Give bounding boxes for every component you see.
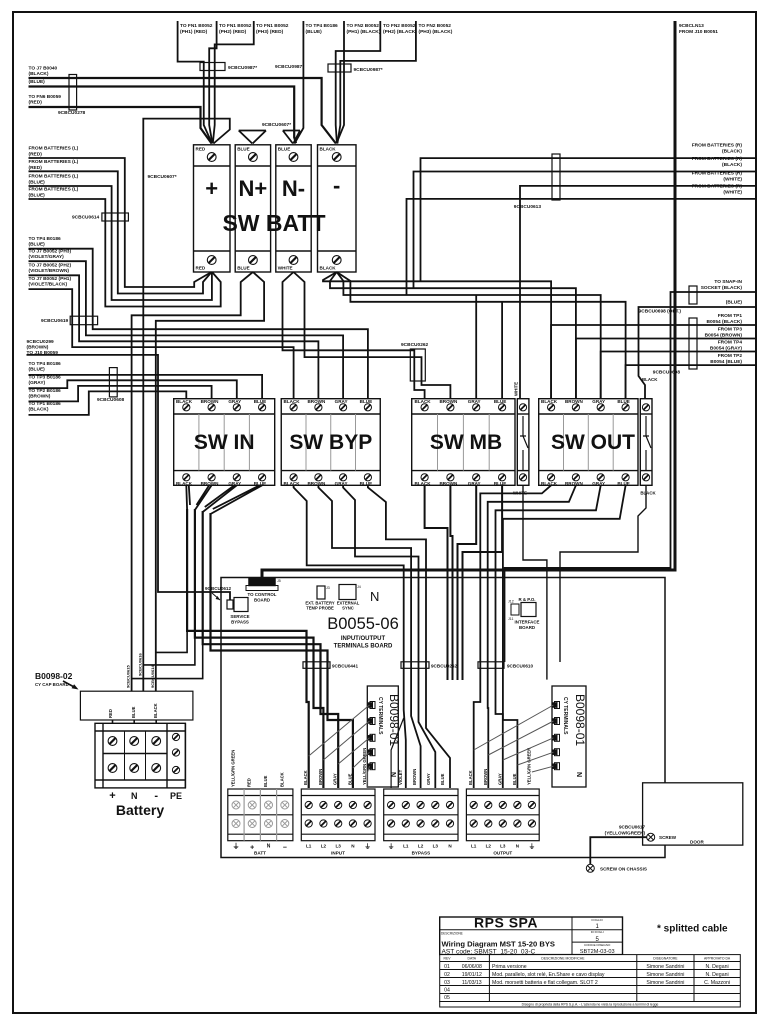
svg-text:9CBCU0614: 9CBCU0614 (72, 215, 100, 221)
svg-text:SW MB: SW MB (430, 431, 502, 454)
svg-text:9CBCU0278: 9CBCU0278 (58, 110, 86, 116)
svg-text:9CBCU0614: 9CBCU0614 (150, 665, 155, 688)
svg-text:SW BYP: SW BYP (289, 431, 372, 454)
svg-text:BROWN: BROWN (565, 399, 584, 404)
svg-text:FROM BATTERIES (L): FROM BATTERIES (L) (29, 146, 79, 152)
svg-text:BROWN: BROWN (412, 769, 417, 785)
svg-text:B0098-01: B0098-01 (573, 694, 587, 746)
svg-text:9CBCU0262: 9CBCU0262 (431, 664, 457, 669)
svg-text:(WHITE): (WHITE) (723, 177, 742, 183)
svg-text:03: 03 (444, 980, 450, 986)
svg-text:N+: N+ (239, 176, 268, 201)
svg-text:TO FN2 B0052: TO FN2 B0052 (419, 23, 452, 29)
svg-text:TO SNAP-IN: TO SNAP-IN (714, 279, 742, 285)
svg-text:(BLACK): (BLACK) (29, 407, 49, 413)
svg-text:−: − (283, 845, 287, 852)
svg-text:9CBCU0698 (OPT.): 9CBCU0698 (OPT.) (639, 309, 682, 315)
svg-text:9CBCU0610: 9CBCU0610 (507, 664, 533, 669)
svg-text:L3: L3 (500, 844, 506, 849)
svg-text:BLACK: BLACK (541, 481, 558, 486)
svg-text:(VIOLET/GRAY): (VIOLET/GRAY) (29, 254, 65, 260)
svg-text:TO TP1 B0186: TO TP1 B0186 (29, 401, 62, 407)
svg-text:BLUE: BLUE (237, 266, 250, 271)
svg-text:BLUE: BLUE (360, 481, 373, 486)
svg-text:BLACK: BLACK (284, 481, 301, 486)
svg-text:TO TP4 B0186: TO TP4 B0186 (306, 23, 339, 29)
svg-text:FROM BATTERIES (R): FROM BATTERIES (R) (692, 156, 743, 162)
svg-text:C. Mazzoni: C. Mazzoni (704, 980, 730, 986)
svg-text:BROWN: BROWN (439, 399, 458, 404)
svg-text:BLACK: BLACK (153, 703, 158, 718)
svg-text:L3: L3 (336, 844, 342, 849)
svg-text:BOARD: BOARD (254, 598, 270, 603)
svg-text:TO J7 B0052 (PH2): TO J7 B0052 (PH2) (29, 263, 72, 269)
svg-text:BLUE: BLUE (494, 481, 507, 486)
svg-text:L1: L1 (471, 844, 477, 849)
svg-text:TO CONTROL: TO CONTROL (248, 592, 277, 597)
svg-text:FROM BATTERIES (R): FROM BATTERIES (R) (692, 143, 743, 149)
svg-text:⏚: ⏚ (529, 843, 536, 851)
svg-text:BROWN: BROWN (483, 769, 488, 785)
svg-text:L2: L2 (321, 844, 327, 849)
svg-text:Simone Sandrini: Simone Sandrini (646, 972, 684, 978)
svg-text:GRAY: GRAY (426, 773, 431, 785)
svg-text:INPUT: INPUT (331, 851, 345, 856)
svg-text:RED: RED (108, 709, 113, 718)
svg-text:BLUE: BLUE (278, 147, 291, 152)
svg-text:BLACK: BLACK (640, 490, 656, 495)
svg-text:TO J7 B0052 (PH3): TO J7 B0052 (PH3) (29, 249, 72, 255)
svg-text:BLUE: BLUE (360, 399, 373, 404)
svg-text:L1: L1 (403, 844, 409, 849)
svg-text:FROM BATTERIES (L): FROM BATTERIES (L) (29, 187, 79, 193)
svg-text:(BLUE): (BLUE) (29, 193, 46, 199)
svg-text:(VIOLET/BROWN): (VIOLET/BROWN) (29, 268, 70, 274)
svg-text:WHITE: WHITE (514, 382, 519, 396)
svg-text:Battery: Battery (116, 802, 164, 818)
svg-text:R & P.O.: R & P.O. (519, 597, 536, 602)
svg-text:RPS SPA: RPS SPA (474, 914, 538, 930)
svg-text:DESCRIZIONE: DESCRIZIONE (441, 931, 463, 935)
svg-text:(PH1) (BLACK): (PH1) (BLACK) (347, 29, 381, 35)
svg-text:GRAY: GRAY (335, 481, 348, 486)
svg-text:GRAY: GRAY (497, 773, 502, 785)
svg-text:BLUE: BLUE (617, 399, 630, 404)
svg-text:(BLACK): (BLACK) (722, 149, 742, 155)
svg-text:TO FN2 B0052: TO FN2 B0052 (347, 23, 380, 29)
svg-text:CY TERMINALS: CY TERMINALS (377, 697, 383, 735)
svg-text:9CBCU0262: 9CBCU0262 (401, 342, 429, 348)
svg-text:B0054 (GRAY): B0054 (GRAY) (710, 346, 742, 352)
svg-text:BROWN: BROWN (439, 481, 458, 486)
svg-text:9CBCU0987*: 9CBCU0987* (228, 65, 257, 71)
svg-text:Disegno di proprietà della RPS: Disegno di proprietà della RPS S.p.A. - … (522, 1003, 659, 1007)
svg-text:⏚: ⏚ (388, 843, 395, 851)
svg-text:BLACK: BLACK (320, 147, 337, 152)
svg-text:J12: J12 (508, 600, 514, 604)
svg-text:CODICE DISEGNO: CODICE DISEGNO (584, 943, 611, 947)
svg-text:OUTPUT: OUTPUT (493, 851, 512, 856)
svg-text:BLUE: BLUE (263, 775, 268, 787)
svg-text:N: N (575, 772, 582, 777)
svg-text:SYNC: SYNC (342, 606, 354, 611)
svg-text:GRAY: GRAY (592, 399, 605, 404)
svg-text:19/01/12: 19/01/12 (462, 972, 482, 978)
svg-text:FOGLIO: FOGLIO (592, 918, 604, 922)
svg-text:BLUE: BLUE (254, 481, 267, 486)
svg-text:TO TP4 B0186: TO TP4 B0186 (29, 236, 62, 242)
svg-text:TO TP2 B0186: TO TP2 B0186 (29, 388, 62, 394)
svg-text:(BLUE): (BLUE) (29, 367, 46, 373)
svg-text:FROM BATTERIES (L): FROM BATTERIES (L) (29, 174, 79, 180)
svg-text:CY TERMINALS: CY TERMINALS (562, 697, 568, 735)
svg-text:9CBCU0608: 9CBCU0608 (97, 397, 125, 403)
svg-text:TO TP3 B0186: TO TP3 B0186 (29, 375, 62, 381)
svg-text:Mod. morsetti batteria e flat: Mod. morsetti batteria e flat collegam. … (492, 980, 598, 986)
svg-text:9CBCU0441: 9CBCU0441 (332, 664, 358, 669)
svg-text:(BROWN): (BROWN) (27, 345, 49, 351)
svg-text:(RED): (RED) (29, 152, 43, 158)
svg-text:(BLUE): (BLUE) (29, 79, 46, 85)
svg-text:TO FN1 B0052: TO FN1 B0052 (180, 23, 213, 29)
svg-text:+: + (109, 790, 115, 802)
svg-text:FROM BATTERIES (L): FROM BATTERIES (L) (29, 159, 79, 165)
svg-text:INPUT/OUTPUT: INPUT/OUTPUT (341, 636, 386, 642)
svg-text:-: - (154, 790, 158, 802)
svg-text:(WHITE): (WHITE) (723, 190, 742, 196)
svg-text:INTERFACE: INTERFACE (515, 620, 540, 625)
svg-text:9CBCU0607*: 9CBCU0607* (148, 174, 177, 180)
svg-text:L1: L1 (306, 844, 312, 849)
svg-text:TO TP4 B0186: TO TP4 B0186 (29, 361, 62, 367)
svg-text:9CBCU0619: 9CBCU0619 (41, 318, 69, 324)
svg-text:BYPASS: BYPASS (231, 620, 249, 625)
svg-text:BYPASS: BYPASS (412, 851, 431, 856)
svg-text:(YELLOW/GREEN): (YELLOW/GREEN) (605, 831, 646, 836)
svg-text:GRAY: GRAY (468, 399, 481, 404)
svg-text:Prima versione: Prima versione (492, 964, 527, 970)
svg-text:05: 05 (444, 995, 450, 1001)
svg-text:SBT2M-03-03: SBT2M-03-03 (580, 949, 615, 955)
svg-text:BLUE: BLUE (237, 147, 250, 152)
svg-text:N: N (131, 791, 138, 801)
svg-text:(BLACK): (BLACK) (722, 162, 742, 168)
svg-text:SCREW: SCREW (659, 835, 677, 840)
svg-text:-: - (333, 173, 340, 198)
svg-text:(PH2) (BLACK): (PH2) (BLACK) (383, 29, 417, 35)
svg-text:BLACK: BLACK (176, 399, 193, 404)
svg-text:9CBCU0612: 9CBCU0612 (205, 586, 231, 591)
svg-text:(RED): (RED) (29, 100, 43, 106)
svg-text:TO FN2 B0052: TO FN2 B0052 (383, 23, 416, 29)
svg-text:(PH2) (RED): (PH2) (RED) (219, 29, 247, 35)
svg-text:BATT: BATT (254, 851, 266, 856)
svg-text:SERVICE: SERVICE (230, 614, 249, 619)
svg-text:BLUE: BLUE (494, 399, 507, 404)
svg-text:DOOR: DOOR (690, 840, 704, 845)
svg-text:GRAY: GRAY (592, 481, 605, 486)
svg-text:BLACK: BLACK (642, 377, 658, 382)
svg-text:B0054 (BLUE): B0054 (BLUE) (710, 359, 742, 365)
svg-text:BROWN: BROWN (201, 481, 220, 486)
svg-text:YELL/GRN GREEN: YELL/GRN GREEN (362, 748, 367, 785)
svg-text:Simone Sandrini: Simone Sandrini (646, 964, 684, 970)
svg-text:04: 04 (444, 988, 450, 994)
svg-text:B0098-01: B0098-01 (387, 694, 401, 746)
svg-text:(PH3) (BLACK): (PH3) (BLACK) (419, 29, 453, 35)
svg-text:L3: L3 (433, 844, 439, 849)
svg-text:(BLUE): (BLUE) (29, 242, 46, 248)
svg-text:BLUE: BLUE (254, 399, 267, 404)
svg-text:9CBCU0987*: 9CBCU0987* (275, 64, 304, 70)
svg-text:(BLUE): (BLUE) (29, 180, 46, 186)
svg-text:9CBCU0615: 9CBCU0615 (126, 665, 131, 688)
svg-text:Mod. parallelo, slot relé, En.: Mod. parallelo, slot relé, En.Share e ca… (492, 972, 605, 978)
svg-text:BLUE: BLUE (347, 773, 352, 785)
svg-text:GRAY: GRAY (333, 773, 338, 785)
svg-text:SW IN: SW IN (194, 431, 255, 454)
svg-text:YELL/GRN GREEN: YELL/GRN GREEN (526, 748, 531, 785)
svg-text:9CBCU0607*: 9CBCU0607* (262, 122, 291, 128)
svg-text:(GRAY): (GRAY) (29, 380, 46, 386)
svg-text:N: N (267, 844, 271, 850)
svg-text:BLUE: BLUE (617, 481, 630, 486)
svg-text:BLACK: BLACK (320, 266, 337, 271)
svg-text:DESCRIZIONE MODIFICHE: DESCRIZIONE MODIFICHE (541, 957, 585, 961)
svg-text:N. Degani: N. Degani (706, 964, 729, 970)
svg-text:B0054 (BLACK): B0054 (BLACK) (707, 319, 743, 325)
svg-text:BROWN: BROWN (307, 481, 326, 486)
svg-text:FROM BATTERIES (R): FROM BATTERIES (R) (692, 171, 743, 177)
svg-text:9CBCU0613: 9CBCU0613 (514, 204, 542, 210)
svg-text:FROM TP4: FROM TP4 (718, 340, 743, 346)
svg-text:11/03/13: 11/03/13 (462, 980, 482, 986)
svg-text:DATA: DATA (468, 957, 477, 961)
svg-text:BLACK: BLACK (415, 481, 432, 486)
svg-text:9CBCU0617: 9CBCU0617 (619, 825, 645, 830)
svg-text:J5: J5 (277, 579, 281, 583)
svg-text:BLUE: BLUE (440, 773, 445, 785)
svg-text:BROWN: BROWN (318, 769, 323, 785)
svg-text:9CBCU0608: 9CBCU0608 (653, 370, 681, 376)
svg-text:GRAY: GRAY (335, 399, 348, 404)
svg-text:YELL/GRN GREEN: YELL/GRN GREEN (231, 750, 236, 787)
svg-text:01: 01 (444, 964, 450, 970)
svg-text:TERMINALS BOARD: TERMINALS BOARD (334, 644, 393, 650)
svg-text:GRAY: GRAY (228, 481, 241, 486)
svg-text:L2: L2 (486, 844, 492, 849)
svg-text:(BROWN): (BROWN) (29, 394, 51, 400)
svg-text:APPROVATO DA: APPROVATO DA (704, 957, 731, 961)
svg-text:BLUE: BLUE (131, 706, 136, 718)
svg-text:BLACK: BLACK (303, 770, 308, 785)
svg-text:9CBCLN13: 9CBCLN13 (679, 23, 704, 29)
svg-text:FROM TP1: FROM TP1 (718, 313, 743, 319)
svg-text:+: + (205, 176, 218, 201)
svg-text:J11: J11 (508, 617, 514, 621)
svg-text:DISEGNATORE: DISEGNATORE (653, 957, 678, 961)
svg-text:L2: L2 (418, 844, 424, 849)
svg-text:VIOLET: VIOLET (398, 769, 403, 785)
svg-text:(PH1) (RED): (PH1) (RED) (180, 29, 208, 35)
svg-text:SOCKET (BLACK): SOCKET (BLACK) (701, 285, 743, 291)
svg-text:02: 02 (444, 972, 450, 978)
svg-text:N-: N- (282, 176, 305, 201)
svg-text:BLACK: BLACK (176, 481, 193, 486)
svg-text:RED: RED (247, 778, 252, 787)
svg-text:FROM TP2: FROM TP2 (718, 353, 743, 359)
svg-text:SW OUT: SW OUT (551, 431, 635, 454)
svg-text:Simone Sandrini: Simone Sandrini (646, 980, 684, 986)
svg-text:TO J10 B0059: TO J10 B0059 (27, 350, 59, 356)
svg-text:TO FN1 B0052: TO FN1 B0052 (219, 23, 252, 29)
svg-text:(PH3) (RED): (PH3) (RED) (256, 29, 284, 35)
svg-text:9CBCU0987*: 9CBCU0987* (354, 67, 383, 73)
svg-text:(BLUE): (BLUE) (306, 29, 323, 35)
svg-text:BOARD: BOARD (519, 625, 535, 630)
svg-text:* splitted cable: * splitted cable (657, 924, 728, 935)
svg-text:B0098-02: B0098-02 (35, 671, 73, 681)
svg-text:FROM TP3: FROM TP3 (718, 327, 743, 333)
svg-text:(BLUE): (BLUE) (726, 300, 743, 306)
svg-text:⏚: ⏚ (233, 843, 240, 851)
svg-text:FROM BATTERIES (R): FROM BATTERIES (R) (692, 184, 743, 190)
svg-text:(RED): (RED) (29, 165, 43, 171)
svg-text:B0054 (BROWN): B0054 (BROWN) (705, 333, 743, 339)
svg-text:PE: PE (170, 791, 182, 801)
svg-text:BROWN: BROWN (307, 399, 326, 404)
svg-text:B0055-06: B0055-06 (327, 615, 399, 633)
svg-text:9CBCU0616: 9CBCU0616 (137, 653, 142, 676)
svg-text:BLACK: BLACK (415, 399, 432, 404)
svg-text:RED: RED (196, 266, 206, 271)
svg-text:TO FN6 B0059: TO FN6 B0059 (29, 94, 62, 100)
svg-text:WHITE: WHITE (278, 266, 293, 271)
svg-text:⏚: ⏚ (364, 843, 371, 851)
svg-text:FROM J10 B0051: FROM J10 B0051 (679, 29, 718, 35)
svg-text:J4: J4 (357, 585, 361, 589)
svg-text:BROWN: BROWN (565, 481, 584, 486)
svg-text:BLACK: BLACK (541, 399, 558, 404)
svg-text:BLACK: BLACK (284, 399, 301, 404)
svg-text:AST code: SBMST_15-20_03-C: AST code: SBMST_15-20_03-C (442, 949, 536, 956)
svg-text:BLUE: BLUE (512, 773, 517, 785)
svg-text:GRAY: GRAY (228, 399, 241, 404)
svg-text:N. Degani: N. Degani (706, 972, 729, 978)
svg-text:TO FN1 B0052: TO FN1 B0052 (256, 23, 289, 29)
svg-text:TO J7 B0052 (PH1): TO J7 B0052 (PH1) (29, 276, 72, 282)
svg-text:SW BATT: SW BATT (222, 210, 325, 236)
svg-text:Wiring Diagram MST 15-20 BYS: Wiring Diagram MST 15-20 BYS (442, 940, 555, 949)
svg-text:TEMP PROBE: TEMP PROBE (306, 606, 334, 611)
svg-text:REV: REV (444, 957, 452, 961)
svg-text:9CBCU0299: 9CBCU0299 (27, 339, 55, 345)
svg-text:(BLACK): (BLACK) (29, 71, 49, 77)
svg-text:(VIOLET/BLACK): (VIOLET/BLACK) (29, 282, 68, 288)
svg-text:RED: RED (196, 147, 206, 152)
svg-text:06/06/08: 06/06/08 (462, 964, 482, 970)
svg-text:BLACK: BLACK (279, 772, 284, 787)
svg-text:BROWN: BROWN (201, 399, 220, 404)
svg-text:CY CAP BOARD: CY CAP BOARD (35, 682, 69, 687)
svg-text:GRAY: GRAY (468, 481, 481, 486)
svg-text:J3: J3 (326, 586, 330, 590)
svg-text:DI FOGLI: DI FOGLI (591, 930, 604, 934)
svg-text:BLACK: BLACK (468, 770, 473, 785)
svg-text:TO J7 B0040: TO J7 B0040 (29, 66, 58, 72)
svg-text:N: N (389, 772, 396, 777)
svg-text:SCREW ON CHASSIS: SCREW ON CHASSIS (600, 867, 647, 872)
svg-text:N: N (370, 589, 379, 604)
